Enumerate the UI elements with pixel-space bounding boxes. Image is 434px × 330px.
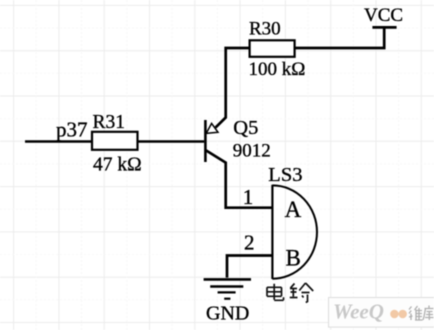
label dian-ling (electric bell, CJK): [267, 283, 313, 303]
transistor Q5 emitter arrow (PNP): [206, 123, 218, 133]
ku: [423, 306, 434, 321]
svg-text:47 kΩ: 47 kΩ: [93, 155, 142, 176]
ling: [290, 283, 313, 303]
wire: input wire to R31: [25, 140, 92, 143]
transistor Q5 base bar: [204, 120, 207, 162]
wire: R30 to VCC: [295, 28, 385, 48]
wire: bell pin 2 to ground: [227, 256, 272, 278]
bell LS3 dome arc: [272, 185, 317, 278]
power VCC bar: [372, 26, 396, 29]
svg-text:B: B: [286, 246, 301, 271]
transistor Q5 emitter diagonal + wire: emitter vertical to top rail: [216, 48, 250, 128]
svg-text:9012: 9012: [233, 141, 271, 162]
transistor Q5 collector diagonal + wire: collector down to bell pin 1: [206, 150, 272, 207]
svg-text:R30: R30: [249, 18, 281, 39]
wei: [409, 306, 423, 320]
ground symbol: [204, 279, 251, 298]
dian: [267, 284, 284, 301]
svg-text:p37: p37: [56, 118, 88, 142]
watermark WeeQoo box: [329, 298, 434, 328]
resistor R31: [92, 132, 138, 150]
svg-text:1: 1: [243, 185, 254, 209]
svg-text:VCC: VCC: [364, 5, 403, 26]
resistor R30: [250, 40, 295, 57]
svg-text:2: 2: [244, 231, 255, 255]
watermark oo dots: [390, 310, 398, 319]
svg-text:LS3: LS3: [268, 164, 302, 186]
svg-text:WeeQ: WeeQ: [333, 300, 384, 324]
svg-text:A: A: [285, 197, 302, 222]
wire: R31 to Q5 base: [138, 140, 205, 143]
svg-text:GND: GND: [206, 303, 249, 325]
watermark wei-ku (CJK): [409, 306, 434, 321]
svg-text:Q5: Q5: [233, 117, 258, 139]
bell LS3 flat side: [271, 185, 273, 279]
svg-text:R31: R31: [93, 112, 126, 133]
svg-text:100 kΩ: 100 kΩ: [249, 59, 306, 80]
